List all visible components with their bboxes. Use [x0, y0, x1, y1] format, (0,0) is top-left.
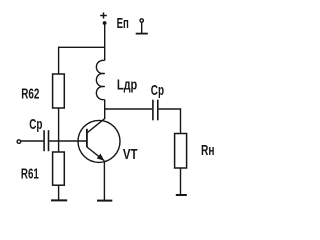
svg-text:Ср: Ср: [151, 83, 164, 99]
supply terminal dot: [103, 21, 107, 25]
svg-text:VT: VT: [123, 147, 138, 163]
svg-text:R62: R62: [21, 87, 39, 103]
wire: input terminal to cap: [21, 140, 44, 142]
capacitor Cр output: [153, 100, 158, 121]
emitter arrowhead: [97, 154, 105, 161]
svg-text:Rн: Rн: [201, 143, 215, 159]
resistor R61: [53, 152, 65, 185]
input terminal circle: [17, 140, 21, 144]
wire: R61 bottom lead: [58, 185, 60, 200]
wire: emitter down: [103, 161, 105, 201]
svg-text:Еп: Еп: [117, 16, 129, 32]
ground under Rн: [176, 194, 187, 196]
resistor R62: [53, 74, 65, 108]
wire: choke bottom to collector: [104, 100, 106, 120]
transistor collector line: [87, 119, 105, 133]
svg-text:R61: R61: [21, 167, 39, 183]
svg-text:Lдр: Lдр: [117, 78, 137, 94]
wire: cap to transistor base: [49, 140, 87, 142]
ground under emitter: [97, 200, 112, 202]
plus sign of supply terminal: [100, 12, 107, 18]
wire: R62 bottom lead down to R61: [58, 108, 60, 152]
wire: horizontal branch to R62: [59, 46, 105, 48]
ground under R61: [51, 199, 67, 201]
wire: main vertical from terminal to choke top: [104, 25, 106, 61]
transistor base bar: [86, 129, 88, 147]
resistor Rн: [175, 134, 187, 169]
wire: output branch horizontal: [105, 108, 152, 110]
pin symbol (supply pin): [136, 19, 148, 34]
transistor emitter line: [87, 147, 104, 160]
wire: R62 top lead: [58, 47, 60, 74]
inductor Lдр (choke): [96, 60, 104, 99]
svg-text:Ср: Ср: [29, 117, 42, 133]
wire: Rн bottom lead: [180, 168, 182, 195]
transistor VT circle: [78, 120, 120, 162]
wire: cap to load corner: [159, 109, 181, 134]
capacitor Ср input: [44, 130, 48, 151]
